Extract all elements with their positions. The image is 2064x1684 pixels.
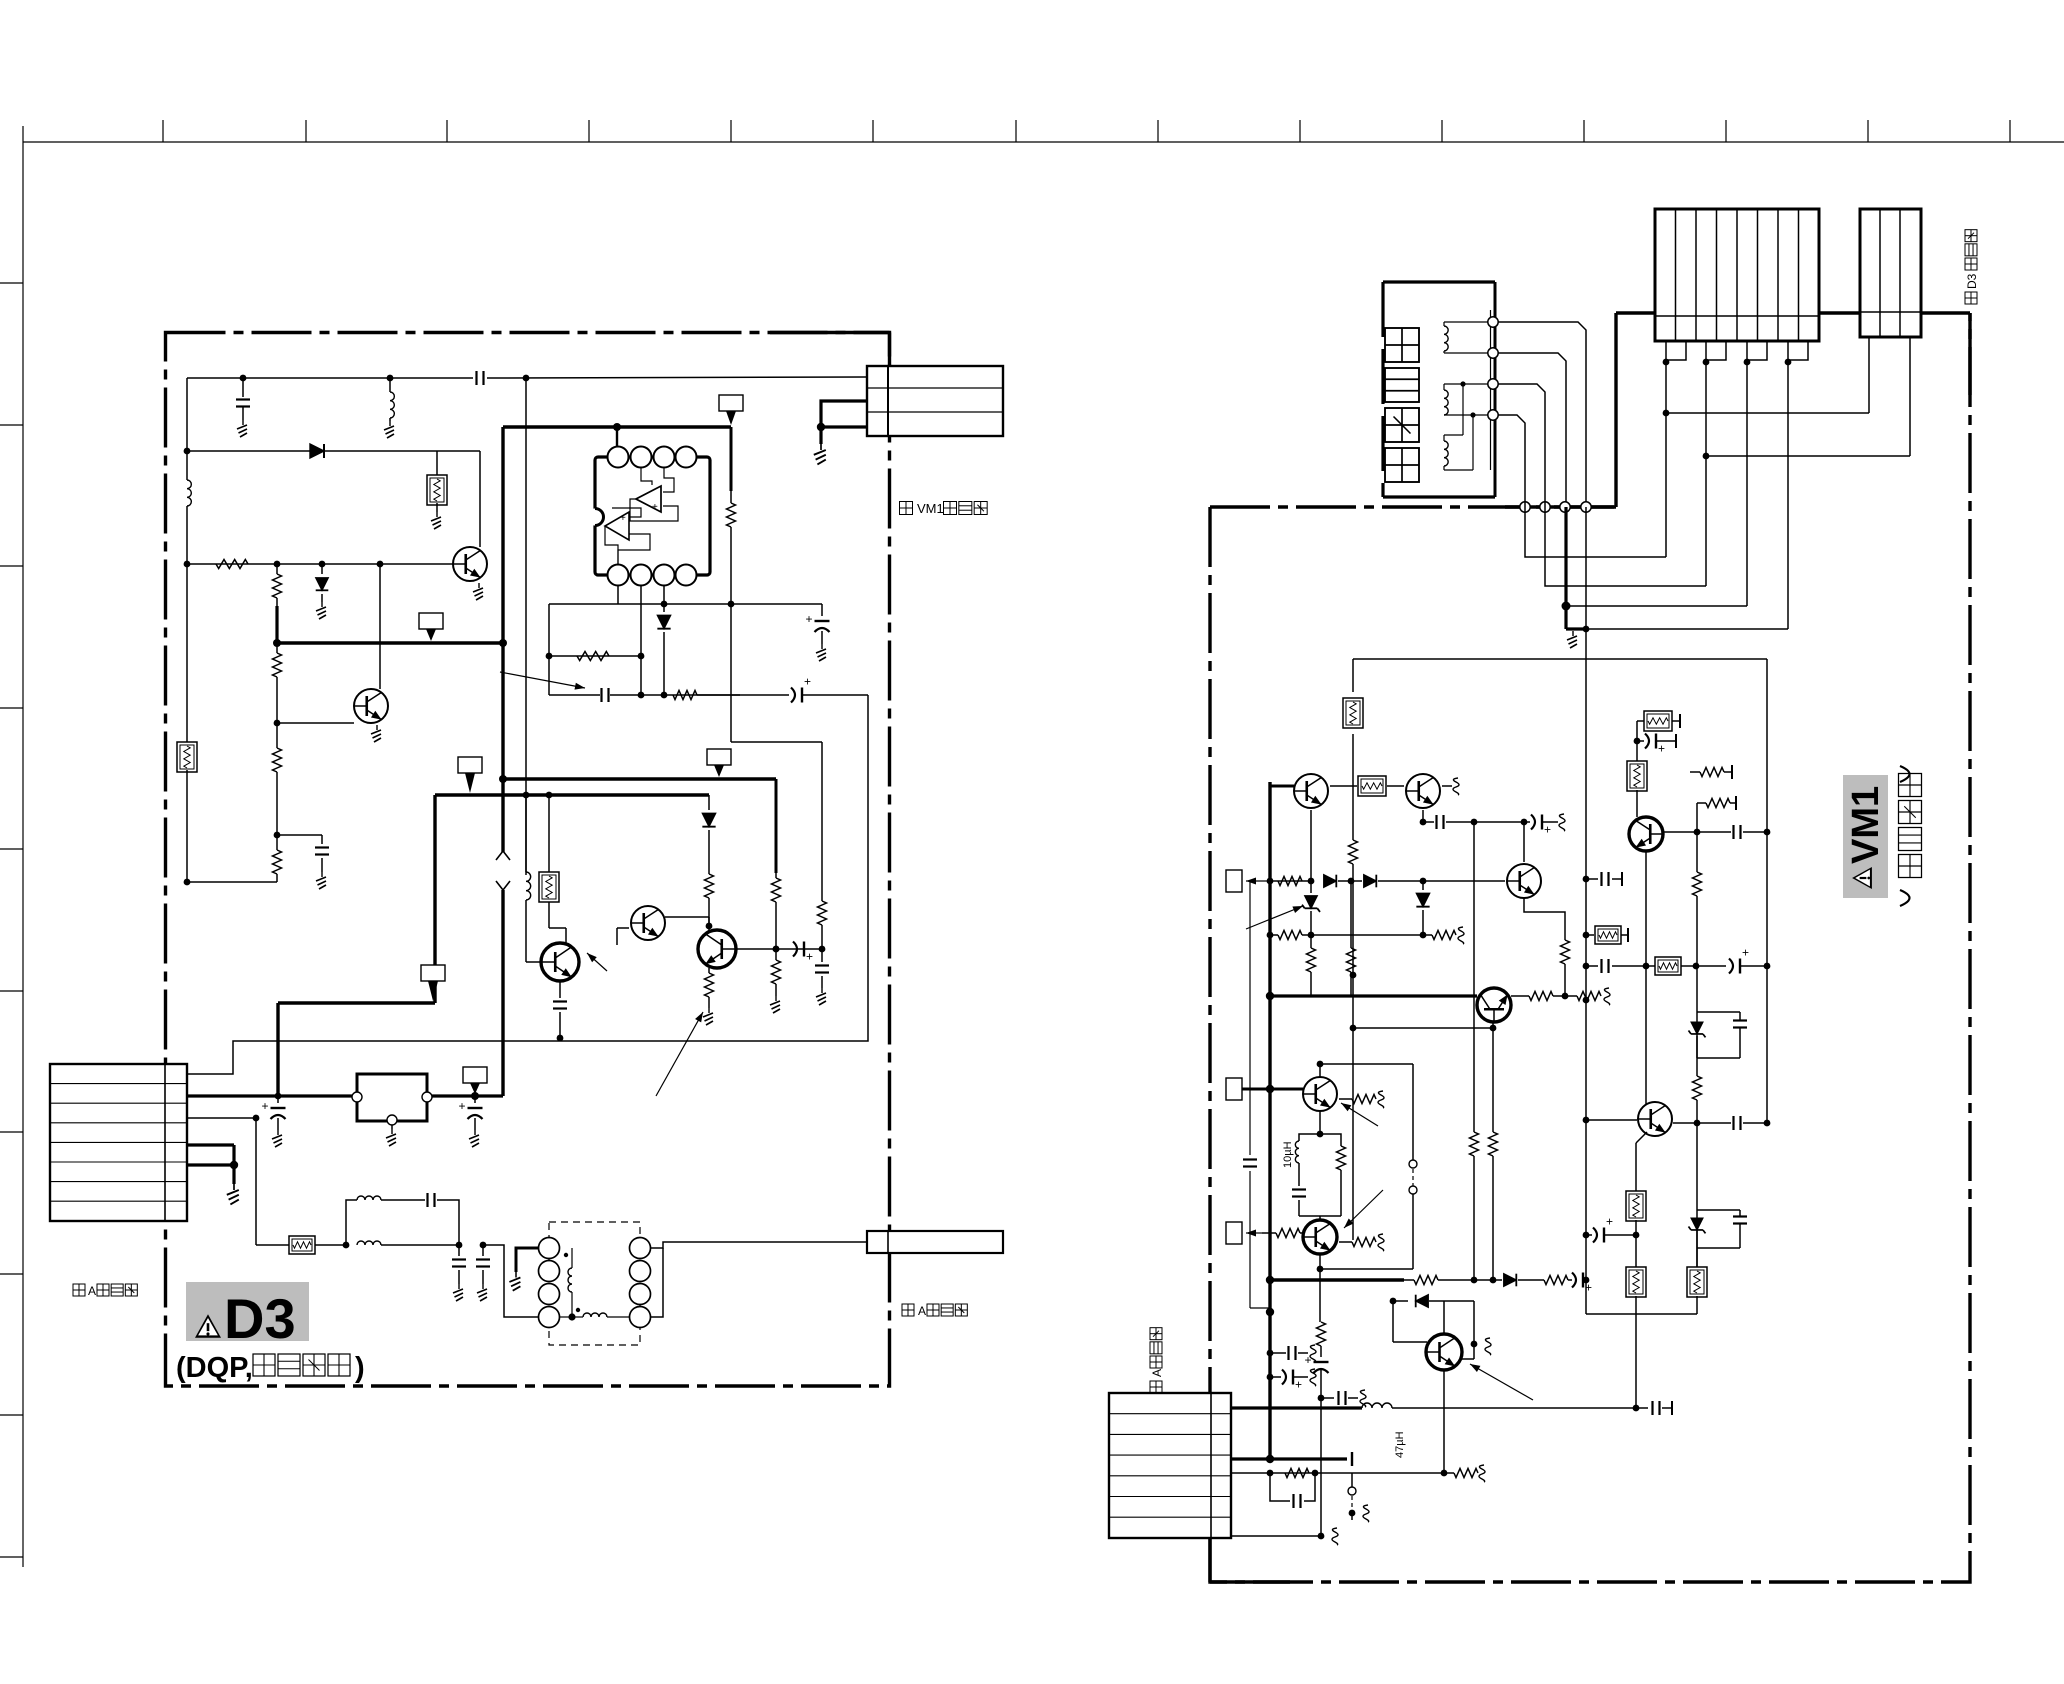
IC U1 pin 11 bbox=[676, 565, 697, 586]
node junction bbox=[638, 692, 668, 699]
node junction bbox=[1266, 1085, 1274, 1093]
transistor Q1 bbox=[453, 547, 487, 581]
left ruler tick marks bbox=[0, 283, 23, 1557]
label to-A-board (vertical) bbox=[1150, 1328, 1164, 1393]
wire Q906 right bbox=[1673, 1122, 1731, 1124]
capacitor C2 bbox=[236, 378, 250, 420]
ground bbox=[816, 644, 826, 661]
zener-cap pair A bbox=[1689, 1012, 1748, 1058]
node junction bbox=[773, 946, 780, 953]
inductor L1 bbox=[390, 378, 394, 421]
wire left vertical bbox=[186, 378, 188, 480]
wire base bbox=[277, 722, 354, 724]
wire pin net4 bbox=[1586, 362, 1788, 629]
ground bbox=[1567, 631, 1577, 648]
fusible resistor FR902 bbox=[1330, 776, 1404, 796]
resistor R915 bbox=[1339, 1095, 1376, 1104]
transistor Q903 bbox=[1507, 864, 1541, 898]
diode D2 bbox=[316, 564, 329, 602]
capacitor C4 electrolytic bbox=[806, 604, 830, 644]
IC U1 pin 4 bbox=[676, 447, 697, 468]
IC U1 pin 3 bbox=[654, 447, 675, 468]
svg-text:): ) bbox=[355, 1352, 365, 1384]
node junction bbox=[480, 1242, 487, 1249]
IC U1 pin 9 bbox=[631, 565, 652, 586]
node junction bbox=[613, 423, 621, 431]
thick bus B4 bbox=[503, 777, 776, 780]
annotation arrow bbox=[500, 672, 585, 690]
wire neck net3 bbox=[1498, 384, 1545, 502]
wire bottom rail bbox=[1586, 1313, 1697, 1315]
fusible resistor FR907 bbox=[1687, 1248, 1707, 1314]
resistor R911 bbox=[1706, 796, 1736, 810]
wire Q902 bottom bbox=[1422, 810, 1424, 822]
wire base Q4 bbox=[617, 928, 629, 945]
break squiggle bbox=[1363, 1505, 1369, 1522]
node junction bbox=[1694, 1120, 1701, 1127]
annotation arrow bbox=[587, 953, 607, 971]
break squiggle bbox=[1310, 1369, 1316, 1386]
resistor R11 bbox=[705, 874, 714, 926]
resistor R910 bbox=[1489, 1132, 1498, 1280]
resistor R919 bbox=[1404, 1276, 1474, 1285]
thick bus row bbox=[1231, 1452, 1352, 1466]
capacitor C10 bbox=[452, 1245, 466, 1284]
wire bbox=[1463, 384, 1473, 470]
label 10uH bbox=[1282, 1141, 1294, 1168]
wire bbox=[1636, 721, 1638, 741]
feed-through terminal bbox=[1540, 502, 1550, 512]
connector CN902 to VM1 board bbox=[867, 366, 1003, 436]
node junction bbox=[661, 601, 668, 608]
capacitor C918 row bbox=[1586, 959, 1696, 973]
capacitor C917 bbox=[1321, 1391, 1358, 1405]
inductor L904 10uH bbox=[1292, 1134, 1320, 1216]
node junction bbox=[773, 946, 780, 953]
wire neck net2 bbox=[1498, 353, 1566, 502]
wire Q907 emitter bbox=[1317, 1111, 1324, 1137]
D3 board outline (dash-dot) bbox=[166, 333, 890, 1387]
CN904 pin pair 3 bbox=[1744, 341, 1767, 365]
wire vert x1474 bbox=[1473, 822, 1475, 1132]
ground bbox=[814, 444, 826, 464]
svg-text:+: + bbox=[806, 612, 813, 626]
thick bus lower bbox=[1270, 1278, 1404, 1281]
break squiggle bbox=[1453, 778, 1459, 795]
inductor L905 47uH bbox=[1362, 1403, 1392, 1408]
transformer T901 primary windings bbox=[539, 1238, 560, 1328]
fusible resistor FR4 bbox=[289, 1236, 315, 1254]
wire net3 row bbox=[256, 1244, 290, 1246]
wire thick focus bus from CN901 row2 bbox=[187, 1094, 357, 1097]
drawing frame left ruler line bbox=[22, 126, 24, 1567]
transistor Q906 bbox=[1638, 1102, 1672, 1136]
ground bbox=[431, 512, 441, 529]
terminal bbox=[1488, 317, 1498, 327]
thick bus B7 bbox=[278, 1003, 435, 1096]
pin P4 bbox=[707, 749, 731, 777]
connector CN901 to A board (left) bbox=[50, 1064, 187, 1221]
svg-text:+: + bbox=[804, 675, 811, 689]
resistor R905 bbox=[1307, 935, 1316, 996]
wire bbox=[479, 451, 481, 547]
thick bus B2 bbox=[503, 425, 731, 428]
wire Q904 base bbox=[1664, 831, 1731, 833]
svg-text:+: + bbox=[1742, 946, 1749, 960]
node junction bbox=[1348, 878, 1355, 885]
op-amp U1b bbox=[605, 508, 650, 564]
inductor L4 branch bbox=[346, 1193, 459, 1245]
wire bbox=[379, 564, 381, 689]
wire neck net1 bbox=[1498, 322, 1586, 502]
annotation arrow bbox=[1341, 1103, 1378, 1126]
node junction bbox=[275, 1093, 282, 1100]
wire long net x1586 bbox=[1585, 507, 1587, 1314]
wire bbox=[187, 881, 277, 883]
ground bbox=[237, 420, 247, 437]
wire CN906 row5 bbox=[1231, 1472, 1444, 1474]
wire Q906 base bbox=[1586, 1119, 1637, 1121]
fusible resistor FR1 bbox=[177, 742, 197, 772]
transformer T901 secondary windings bbox=[630, 1238, 651, 1328]
wire bbox=[665, 917, 709, 926]
top ruler tick marks bbox=[163, 120, 2010, 142]
resistor R922 bbox=[1444, 1469, 1478, 1478]
wire base Q5 bbox=[736, 948, 822, 950]
wire thick stub bbox=[275, 606, 278, 643]
node junction bbox=[523, 375, 530, 382]
op-amp U1a bbox=[630, 468, 678, 521]
wire mid row bbox=[549, 604, 822, 656]
svg-text:A: A bbox=[918, 1304, 926, 1318]
svg-text:+: + bbox=[1658, 742, 1665, 756]
transistor Q909 bbox=[1426, 1334, 1462, 1370]
fusible resistor FR908 bbox=[1586, 926, 1628, 944]
connector CN904 (8-pin) bbox=[1655, 209, 1819, 341]
wire Q905 out bbox=[1511, 995, 1529, 997]
resistor R907 bbox=[1561, 940, 1570, 996]
break squiggle bbox=[1378, 1091, 1384, 1108]
capacitor C904 electrolytic bbox=[1524, 815, 1558, 837]
node junction bbox=[1583, 1277, 1590, 1284]
pin P1 bbox=[463, 1067, 487, 1094]
wire emitter bbox=[1442, 785, 1452, 787]
wire Q908 collector bbox=[1317, 1254, 1413, 1272]
capacitor C9 bbox=[815, 949, 829, 988]
ground bbox=[227, 1184, 239, 1204]
wire right column bbox=[731, 527, 822, 901]
capacitor C906 electrolytic bbox=[1637, 734, 1676, 756]
wire bbox=[186, 506, 188, 744]
resistor R904 bbox=[1423, 931, 1456, 940]
wire net1 from CN901 row1 bbox=[187, 695, 868, 1074]
capacitor C8 electrolytic bbox=[793, 942, 813, 964]
resistor R908b bbox=[1529, 992, 1553, 1001]
diode D4 bbox=[702, 795, 715, 874]
node junction bbox=[1471, 1277, 1497, 1284]
node junction bbox=[387, 375, 394, 382]
svg-text:47µH: 47µH bbox=[1394, 1431, 1406, 1458]
break chevrons bbox=[496, 851, 510, 890]
node junction bbox=[343, 1242, 350, 1249]
diode D904 bbox=[1416, 881, 1429, 935]
diode D902 bbox=[1364, 875, 1377, 888]
node junction bbox=[1266, 1455, 1274, 1463]
node junction bbox=[1562, 602, 1571, 611]
resistor R921 bbox=[1285, 1469, 1309, 1478]
resistor R3 bbox=[273, 643, 282, 723]
capacitor C909 electrolytic bbox=[1586, 1215, 1636, 1243]
node junction bbox=[273, 639, 507, 647]
capacitor C1 bbox=[477, 371, 484, 385]
node junction bbox=[1266, 1276, 1274, 1284]
fusible resistor FR904 bbox=[1627, 741, 1647, 817]
ground bbox=[384, 421, 394, 438]
capacitor C6 electrolytic bbox=[697, 675, 868, 703]
break squiggle bbox=[1485, 1338, 1491, 1355]
ground bbox=[371, 725, 381, 742]
wire link to CN905 pin1 bbox=[1666, 337, 1869, 413]
thick vertical bus B6 bbox=[433, 795, 436, 1003]
wire Q907 top bbox=[1317, 1061, 1413, 1077]
node junction bbox=[1633, 1405, 1640, 1412]
wire x1636 down bbox=[1635, 1314, 1637, 1408]
node junction bbox=[471, 1092, 479, 1100]
wire diode net bbox=[187, 450, 310, 452]
node junction bbox=[819, 946, 826, 953]
break squiggle bbox=[1378, 1234, 1384, 1251]
break squiggle bbox=[1360, 1390, 1366, 1407]
feed-through terminal bbox=[1581, 502, 1591, 512]
wire into transformer bbox=[483, 1245, 539, 1317]
connector CN903 to A board bbox=[867, 1231, 1003, 1253]
break squiggle bbox=[1479, 1465, 1485, 1482]
wire IC pin7 bbox=[663, 586, 665, 604]
wire net3 from CN901 row3 bbox=[187, 1117, 256, 1119]
node junction bbox=[1460, 381, 1475, 417]
fusible resistor FR909 bbox=[1655, 957, 1681, 975]
node junction bbox=[184, 879, 191, 886]
IC U1 pin 8 bbox=[608, 565, 629, 586]
svg-text:A: A bbox=[88, 1284, 96, 1298]
wire IC pin6 bbox=[640, 586, 642, 695]
resistor R4 bbox=[273, 723, 282, 835]
node junction bbox=[456, 1242, 463, 1249]
wire thick neck ground net bbox=[1566, 507, 1586, 629]
wire pin net1 bbox=[1525, 362, 1666, 557]
wire collector bbox=[549, 906, 566, 945]
capacitor C919 electrolytic bbox=[1696, 946, 1770, 974]
break squiggle bbox=[1604, 988, 1610, 1005]
wire bbox=[324, 450, 480, 452]
node junction bbox=[1583, 963, 1590, 970]
wire bbox=[616, 427, 618, 446]
diode D1 bbox=[310, 444, 324, 458]
node junction bbox=[274, 720, 281, 727]
wire bbox=[1299, 1216, 1341, 1220]
node junction bbox=[1764, 1120, 1771, 1127]
neck assembly label bbox=[1385, 328, 1419, 482]
label to-D3-board (vertical) bbox=[1965, 230, 1979, 304]
wire bbox=[255, 1118, 257, 1245]
wire bbox=[1320, 1398, 1322, 1536]
wire Q905 base bbox=[1350, 1025, 1497, 1032]
node junction bbox=[1308, 878, 1315, 885]
node junction bbox=[1266, 1308, 1274, 1316]
label 47uH bbox=[1394, 1431, 1406, 1458]
node junction bbox=[1694, 829, 1701, 836]
thick bus B5 bbox=[435, 793, 709, 796]
CN904 pin pair 1 bbox=[1663, 341, 1686, 365]
inductor L3 bbox=[526, 795, 531, 900]
node junction bbox=[274, 561, 384, 568]
transistor Q902 bbox=[1406, 774, 1440, 808]
node junction bbox=[1633, 1232, 1640, 1239]
inner circuit box top bbox=[1353, 658, 1767, 660]
terminal bbox=[1488, 348, 1498, 358]
zener-cap pair B bbox=[1689, 1210, 1748, 1248]
coil L903 bbox=[1444, 435, 1473, 470]
label to-VM1-board bbox=[900, 501, 988, 516]
node junction bbox=[1521, 819, 1528, 826]
resistor R13 bbox=[818, 901, 827, 949]
svg-text:VM1: VM1 bbox=[1845, 786, 1887, 864]
capacitor C912 bbox=[1270, 1346, 1308, 1360]
break squiggle bbox=[1310, 1345, 1316, 1362]
wire top net bbox=[187, 377, 473, 379]
node junction bbox=[230, 1161, 238, 1169]
node junction bbox=[1643, 963, 1700, 970]
transformer inner winding bbox=[568, 1248, 572, 1317]
thick vertical bus B3 bbox=[501, 427, 504, 1096]
wire bbox=[1697, 803, 1706, 832]
fusible resistor FR901 bbox=[1343, 698, 1363, 728]
resistor R12 bbox=[705, 968, 714, 1008]
node junction bbox=[1471, 819, 1478, 826]
polarity dot bbox=[564, 1253, 580, 1312]
node junction bbox=[1266, 992, 1274, 1000]
pin TP1 bbox=[1226, 870, 1242, 892]
capacitor C901 electrolytic bbox=[262, 1096, 286, 1130]
resistor R9 bbox=[772, 873, 781, 949]
node junction bbox=[253, 1115, 260, 1122]
wire bbox=[708, 926, 710, 930]
svg-text:+: + bbox=[620, 513, 626, 524]
wire thick from CN901 row5 bbox=[187, 1165, 234, 1184]
svg-text:+: + bbox=[262, 1099, 269, 1113]
ground bbox=[816, 988, 826, 1005]
capacitor C11 bbox=[476, 1245, 490, 1284]
wire link to CN905 pin2 bbox=[1706, 337, 1910, 456]
node junction bbox=[1663, 410, 1670, 417]
D3 board sublabel bbox=[176, 1352, 365, 1384]
wire thick bbox=[775, 779, 778, 873]
pin TP3 bbox=[1226, 1222, 1242, 1244]
resistor R920 bbox=[1544, 1276, 1568, 1285]
fusible resistor FR903 bbox=[1637, 711, 1680, 731]
wire Q909 emitter bbox=[1461, 1301, 1477, 1359]
IC U1 pin 10 bbox=[654, 565, 675, 586]
inner circuit box right bbox=[1766, 659, 1768, 1123]
capacitor C5 bbox=[602, 688, 609, 702]
node junction bbox=[1308, 932, 1315, 939]
ground bbox=[316, 602, 326, 619]
wire thick 47uH row bbox=[1231, 1406, 1362, 1409]
label to-A-board (left) bbox=[73, 1284, 137, 1298]
wire bbox=[315, 1244, 346, 1246]
resistor R8 bbox=[673, 691, 697, 700]
zener diode D903 bbox=[1302, 881, 1320, 935]
resistor R1 bbox=[216, 560, 248, 569]
wire Q901 bottom bbox=[1310, 810, 1312, 881]
resistor R5 bbox=[273, 835, 282, 882]
inductor L6 bbox=[583, 1313, 607, 1317]
resistor R908 bbox=[1470, 1132, 1479, 1280]
resistor R902 bbox=[1278, 877, 1302, 886]
capacitor C911 electrolytic bbox=[1568, 1273, 1592, 1295]
wire base bbox=[526, 900, 541, 962]
wire bbox=[1553, 995, 1577, 997]
resistor R917 bbox=[1276, 1229, 1303, 1238]
node junction bbox=[568, 1313, 575, 1320]
wire bbox=[1474, 821, 1524, 823]
connector CN905 (3-pin) bbox=[1860, 209, 1921, 337]
node junction bbox=[1583, 876, 1590, 1239]
annotation arrow bbox=[656, 1012, 703, 1096]
inner circuit box left bbox=[1352, 659, 1354, 1240]
node junction bbox=[1703, 453, 1710, 460]
wire bbox=[1518, 1279, 1544, 1281]
terminal bbox=[1488, 379, 1498, 389]
wire x1250 bbox=[1250, 881, 1270, 1308]
node junction bbox=[1420, 878, 1427, 885]
capacitor C905 bbox=[1243, 1160, 1257, 1167]
transistor Q2 bbox=[354, 689, 388, 723]
svg-text:+: + bbox=[459, 1099, 466, 1113]
wire arrow into TP1 bbox=[1246, 878, 1311, 885]
wire bbox=[487, 377, 867, 378]
wire thick Q base row bbox=[1270, 785, 1294, 788]
capacitor C914 bbox=[1636, 1401, 1672, 1415]
transformer T901 dashed box bbox=[549, 1222, 640, 1345]
wire CN906 row7 bbox=[1231, 1533, 1324, 1540]
capacitor C903 bbox=[1423, 815, 1474, 829]
wire Q909 down bbox=[1443, 1370, 1445, 1473]
feed-through terminal bbox=[1560, 502, 1570, 512]
break squiggle bbox=[1332, 1528, 1338, 1545]
op-amp IC U1 outline bbox=[587, 457, 711, 575]
node junction bbox=[1764, 829, 1771, 836]
diode D906 bbox=[1390, 1295, 1474, 1334]
svg-text:+: + bbox=[1305, 1353, 1312, 1367]
node junction bbox=[1350, 972, 1357, 979]
svg-text:+: + bbox=[1606, 1215, 1613, 1229]
annotation arrow bbox=[1246, 906, 1303, 929]
ground bbox=[316, 872, 326, 889]
node junction bbox=[1583, 932, 1590, 939]
node junction bbox=[557, 1035, 564, 1042]
svg-text:A: A bbox=[1150, 1369, 1164, 1377]
VM1 board outline (dash-dot) bbox=[1210, 313, 1970, 1582]
label to-A-board (right) bbox=[902, 1304, 967, 1318]
node junction bbox=[1634, 738, 1641, 745]
wire bbox=[610, 694, 740, 696]
wire neck net4 bbox=[1498, 415, 1525, 502]
resistor R6 bbox=[727, 491, 736, 527]
node junction bbox=[1318, 1395, 1325, 1402]
fusible resistor FR905 bbox=[1626, 1191, 1646, 1235]
diode D3 bbox=[657, 604, 670, 695]
